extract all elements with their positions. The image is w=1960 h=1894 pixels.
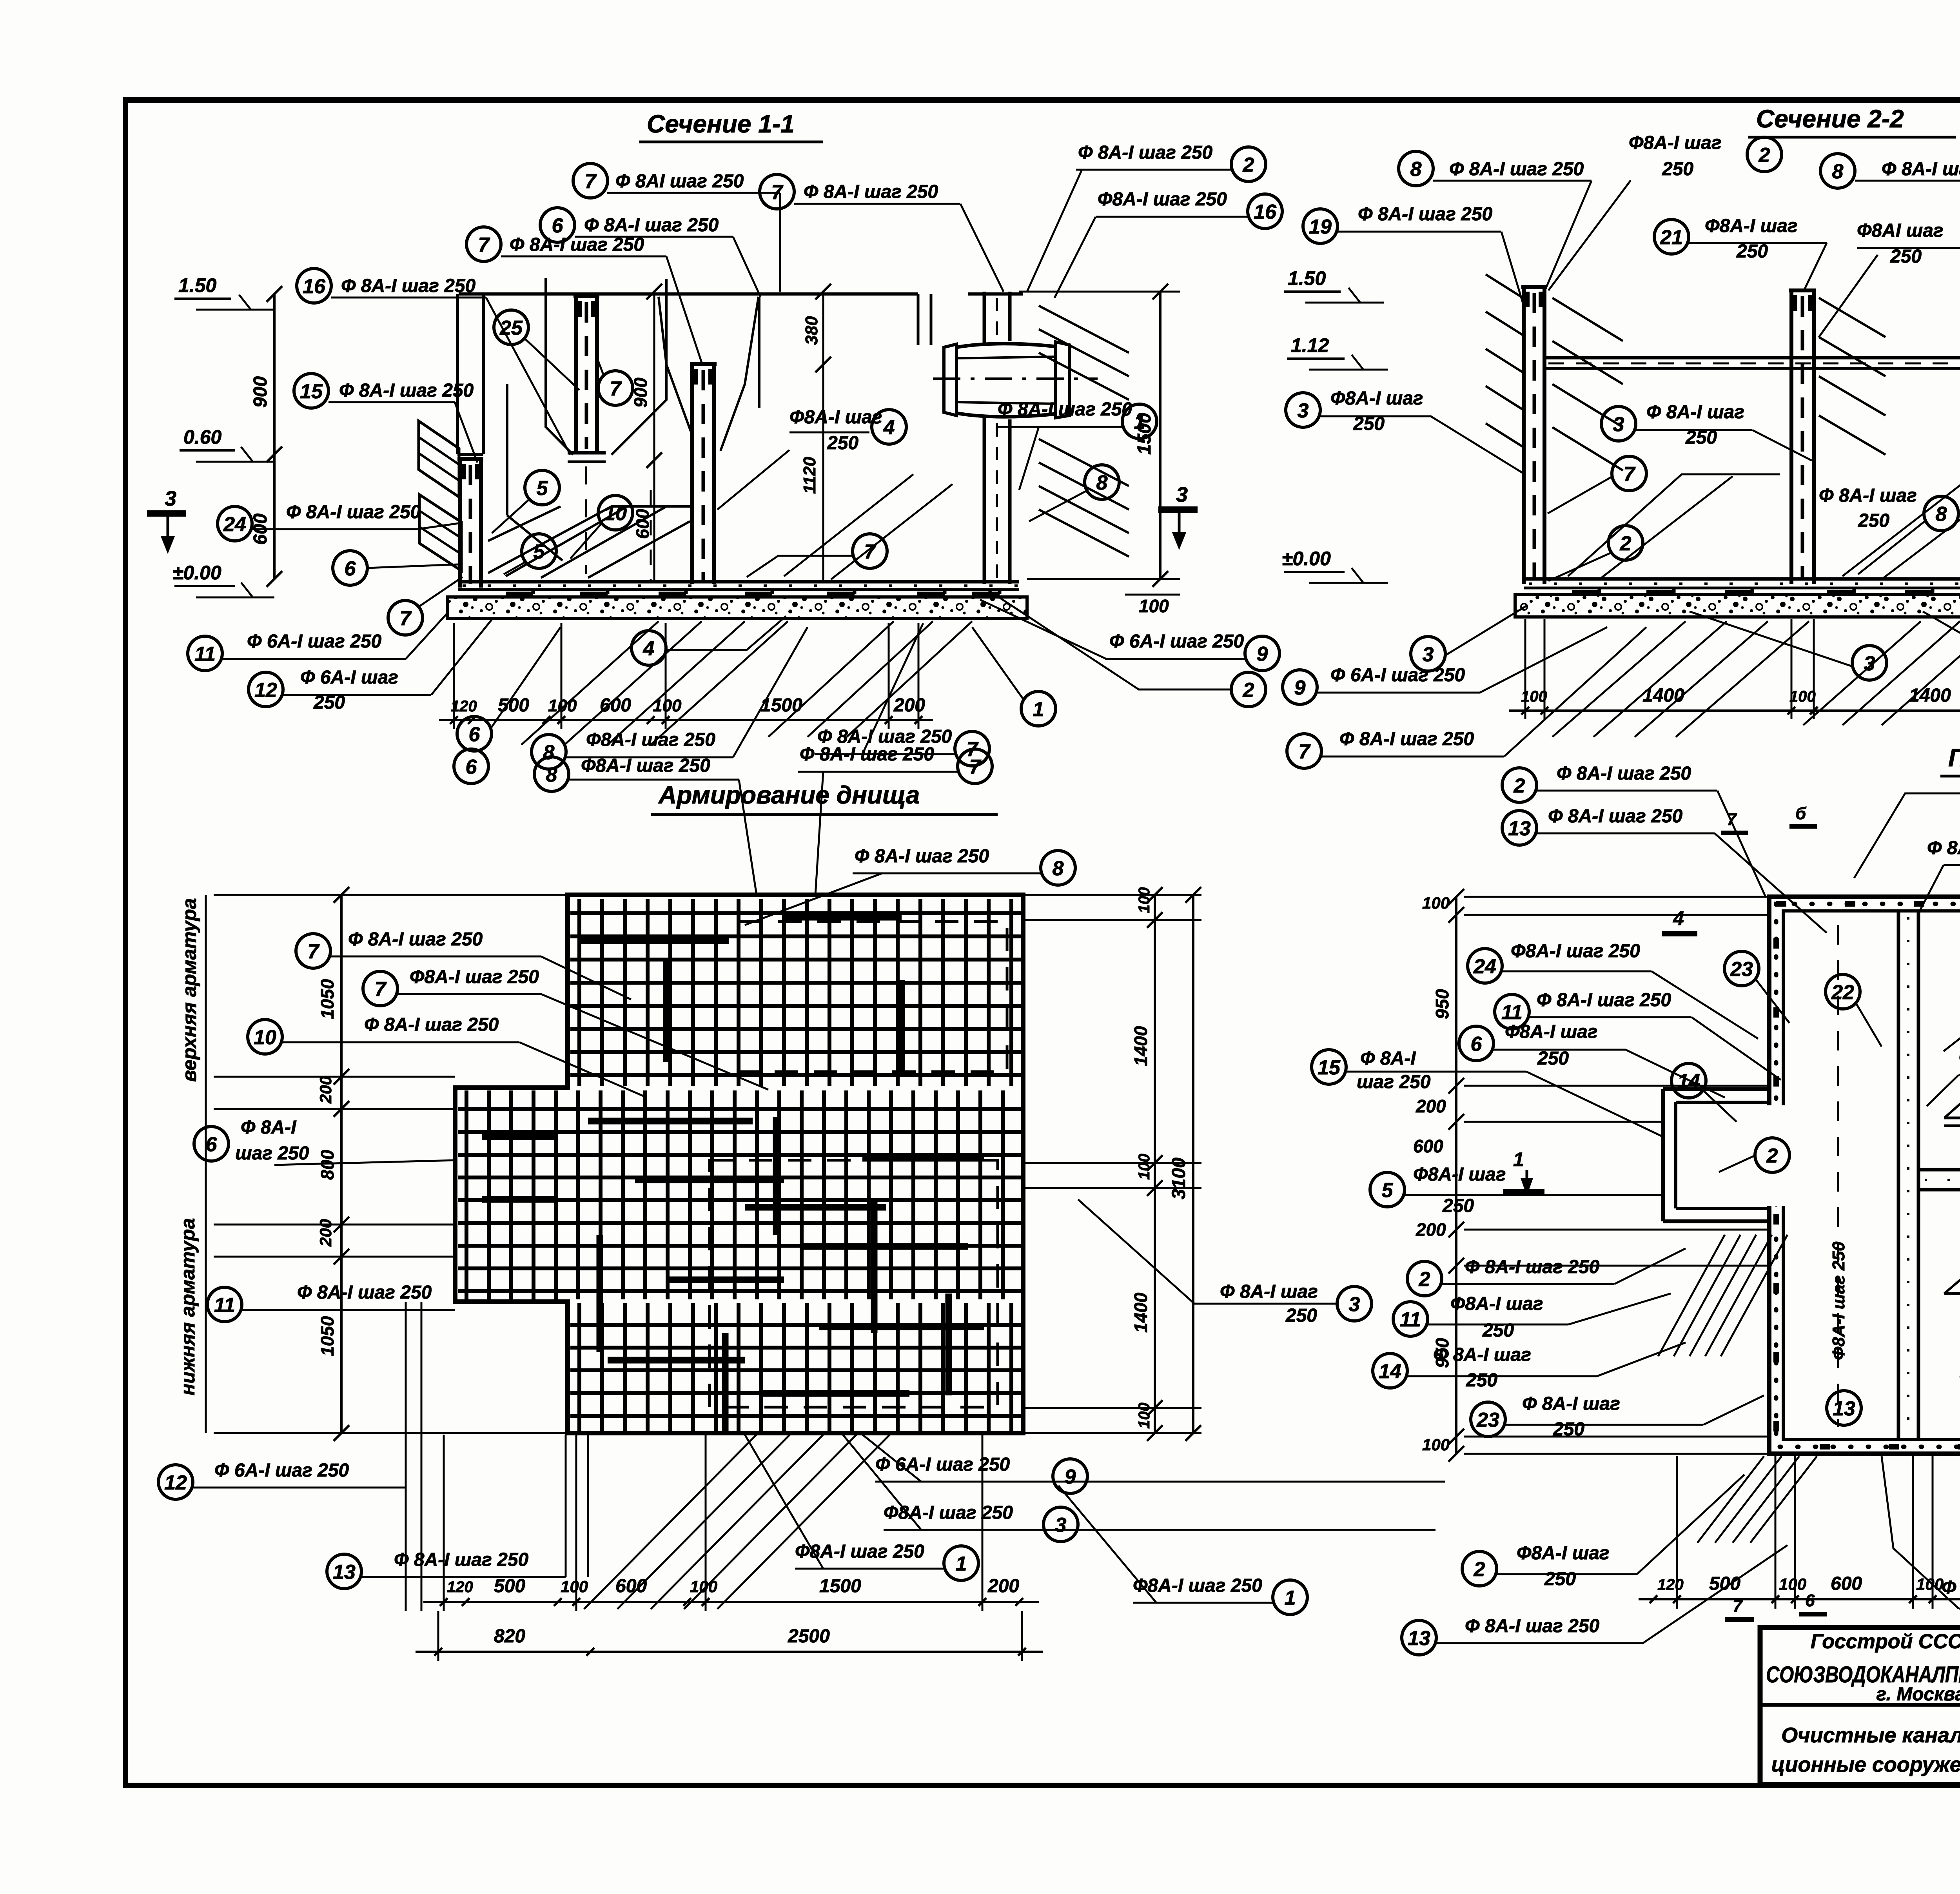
svg-text:3: 3	[1613, 413, 1624, 436]
svg-text:Ф 8А-I шаг 250: Ф 8А-I шаг 250	[348, 929, 483, 950]
svg-text:15: 15	[1318, 1056, 1341, 1079]
svg-text:Ф8А-I шаг 250: Ф8А-I шаг 250	[1829, 1241, 1848, 1360]
plan 3-3 bottom dim chain	[1639, 1598, 1960, 1600]
svg-text:1050: 1050	[317, 1316, 338, 1356]
svg-text:22: 22	[1831, 981, 1854, 1004]
vertical dim 1500 right	[1159, 292, 1161, 579]
svg-text:Ф 6А-I шаг 250: Ф 6А-I шаг 250	[1109, 631, 1244, 652]
svg-text:10: 10	[604, 502, 627, 525]
svg-text:Ф8А-I шаг: Ф8А-I шаг	[1705, 216, 1797, 236]
callout 13 plan	[327, 1435, 566, 1589]
callout 6 plan left	[194, 1117, 455, 1165]
svg-text:Ф 8А-I шаг 250: Ф 8А-I шаг 250	[1548, 806, 1683, 827]
svg-text:1500: 1500	[819, 1576, 861, 1596]
callout 9 s2	[1283, 627, 1607, 704]
wire top line section 1-1	[459, 292, 918, 296]
svg-text:8: 8	[1936, 503, 1947, 526]
callout 11 plan	[207, 1282, 455, 1322]
callout 7 corner	[388, 577, 463, 635]
callout 1 plan	[745, 1435, 978, 1580]
svg-text:7: 7	[771, 181, 784, 204]
svg-text:Армирование днища: Армирование днища	[658, 781, 920, 809]
callout 12	[249, 619, 492, 713]
svg-text:Ф 8А-I шаг 250: Ф 8А-I шаг 250	[1537, 990, 1671, 1010]
callout 19b s2	[1303, 204, 1525, 310]
svg-text:1400: 1400	[1131, 1026, 1151, 1066]
svg-text:100: 100	[1136, 887, 1153, 913]
svg-text:120: 120	[447, 1578, 473, 1596]
svg-text:Ф 8А-I шаг 250: Ф 8А-I шаг 250	[341, 276, 476, 296]
svg-text:7: 7	[969, 756, 982, 778]
horizontal dim chain bottom section 2-2	[1509, 709, 1960, 712]
svg-text:250: 250	[1482, 1320, 1514, 1341]
svg-text:500: 500	[494, 1576, 525, 1596]
svg-text:Ф8А-I шаг 250: Ф8А-I шаг 250	[1511, 941, 1640, 962]
svg-text:5: 5	[537, 477, 548, 500]
svg-text:±0.00: ±0.00	[172, 562, 221, 584]
callout 2 s2	[1548, 132, 1782, 290]
svg-text:200: 200	[1416, 1219, 1446, 1240]
svg-text:Ф 8А-I шаг: Ф 8А-I шаг	[1646, 402, 1744, 423]
callout 14 p33	[1671, 1063, 1737, 1122]
callout 15	[294, 374, 477, 463]
callout 1 right	[997, 399, 1157, 490]
svg-text:13: 13	[333, 1561, 356, 1584]
svg-text:10: 10	[254, 1026, 276, 1049]
svg-text:3: 3	[1864, 652, 1875, 675]
svg-text:1.50: 1.50	[178, 274, 217, 296]
callout 8 s2	[1399, 151, 1592, 287]
svg-text:600: 600	[1831, 1573, 1862, 1594]
svg-text:500: 500	[1709, 1573, 1740, 1594]
svg-text:2: 2	[1766, 1145, 1778, 1167]
callout 8 bottom	[532, 627, 808, 769]
svg-text:Ф8А-I шаг: Ф8А-I шаг	[1330, 388, 1423, 409]
right vertical dim chains plan	[1154, 895, 1156, 1433]
floor hatch diagonals	[488, 506, 686, 573]
svg-text:Ф8А-I шаг 250: Ф8А-I шаг 250	[581, 755, 710, 776]
svg-text:Ф 8А-I шаг 250: Ф 8А-I шаг 250	[1358, 204, 1493, 225]
horizontal dim chain bottom section 1-1	[439, 719, 933, 721]
svg-text:Ф 8А-I шаг 250: Ф 8А-I шаг 250	[855, 846, 989, 867]
callout 23 p33	[1724, 951, 1789, 1023]
svg-text:Ф8А-I шаг: Ф8А-I шаг	[1413, 1164, 1506, 1185]
callout 5 low	[504, 534, 556, 574]
svg-text:Ф 6А-I шаг 250: Ф 6А-I шаг 250	[875, 1454, 1010, 1475]
svg-text:2: 2	[1620, 532, 1632, 555]
svg-text:6: 6	[345, 557, 356, 580]
svg-text:13: 13	[1833, 1397, 1855, 1420]
svg-text:7: 7	[610, 377, 622, 400]
svg-text:250: 250	[1858, 510, 1889, 531]
svg-text:Ф 8А-I шаг: Ф 8А-I шаг	[1433, 1344, 1531, 1365]
svg-text:250: 250	[1285, 1305, 1317, 1326]
svg-text:Ф8А-I шаг 250: Ф8А-I шаг 250	[884, 1502, 1013, 1523]
svg-text:7: 7	[400, 607, 412, 630]
callout 8b s2	[1820, 154, 1960, 287]
wall left section 1-1	[458, 459, 462, 588]
svg-text:Ф 8А-I шаг 250: Ф 8А-I шаг 250	[1882, 159, 1960, 180]
svg-text:13: 13	[1408, 1627, 1430, 1650]
callout 8 right	[1029, 465, 1119, 521]
svg-text:100: 100	[1789, 688, 1816, 705]
svg-text:23: 23	[1730, 958, 1753, 981]
svg-text:250: 250	[1553, 1419, 1584, 1440]
callout 9 plan	[862, 1435, 1445, 1493]
svg-text:600: 600	[1413, 1136, 1443, 1156]
callout 7 bottom	[815, 623, 989, 766]
title block	[1760, 1627, 1960, 1785]
svg-text:820: 820	[494, 1626, 525, 1647]
callout 2d p33	[1407, 1248, 1686, 1296]
svg-text:250: 250	[1466, 1370, 1497, 1391]
callout 7 third	[466, 227, 702, 363]
callout 2c p33	[1719, 1138, 1789, 1172]
inlet channel	[1663, 1087, 1769, 1091]
svg-text:2: 2	[1514, 775, 1525, 797]
svg-text:Ф8А-I шаг: Ф8А-I шаг	[1629, 132, 1721, 153]
callout 5	[492, 470, 559, 533]
plan 3-3 outer wall	[1769, 897, 1960, 1454]
svg-text:7: 7	[1624, 463, 1636, 486]
svg-text:Ф 8А-I шаг: Ф 8А-I шаг	[1220, 1281, 1318, 1302]
svg-text:Ф8А-I шаг: Ф8А-I шаг	[1517, 1543, 1609, 1564]
wall middle section 2-2	[1789, 290, 1793, 584]
callout 21 s2	[1654, 216, 1827, 292]
callout 4 p33	[1918, 838, 1960, 913]
svg-text:8: 8	[1410, 158, 1422, 181]
svg-text:Ф8А-I шаг: Ф8А-I шаг	[1505, 1021, 1597, 1042]
svg-text:Ф 8А-I шаг 250: Ф 8А-I шаг 250	[364, 1014, 499, 1035]
svg-text:2: 2	[1474, 1558, 1485, 1581]
concrete base slab section 2-2	[1515, 595, 1960, 617]
callout 7 floor	[747, 534, 887, 577]
hatch left wall	[1486, 274, 1523, 298]
svg-text:8: 8	[543, 741, 555, 764]
callout 4 bottom	[632, 616, 786, 665]
callout 25	[494, 310, 579, 390]
dashed wall outline lower	[710, 1160, 998, 1407]
wall right section 1-1 with pipe	[983, 292, 986, 345]
callout 6 plan top	[454, 749, 488, 784]
svg-text:11: 11	[1400, 1308, 1421, 1331]
svg-text:13: 13	[1508, 817, 1531, 840]
callout 7 top2	[760, 174, 1004, 292]
floor slab top reinforcement band	[458, 580, 1019, 584]
callout 1 plan b	[1058, 1486, 1307, 1615]
leader bundle below slab s2	[1552, 621, 1686, 737]
rebar grid lower	[577, 1303, 581, 1431]
left vertical dim chain plan	[340, 895, 343, 1433]
svg-text:1.50: 1.50	[1288, 267, 1326, 289]
corridor dashed rebar pos 13	[1837, 925, 1839, 1427]
callout 12 plan	[158, 1460, 406, 1499]
svg-text:8: 8	[546, 764, 557, 786]
svg-text:0.60: 0.60	[183, 426, 222, 448]
svg-text:4: 4	[883, 416, 895, 439]
svg-text:1400: 1400	[1131, 1292, 1151, 1333]
svg-text:19: 19	[1309, 216, 1332, 238]
svg-text:Ф 8А-I шаг 250: Ф 8А-I шаг 250	[1465, 1616, 1600, 1636]
callout 3d s2	[1411, 606, 1527, 671]
rebar lines top chamber	[1944, 1117, 1960, 1119]
svg-text:12: 12	[164, 1471, 187, 1494]
rebar grid middle band	[465, 1090, 468, 1299]
svg-text:600: 600	[632, 509, 653, 539]
svg-text:Ф 6А-I шаг 250: Ф 6А-I шаг 250	[1330, 665, 1465, 686]
callout 6 bottom	[457, 627, 561, 751]
callout 7 baffle	[596, 355, 633, 405]
svg-text:120: 120	[1657, 1576, 1684, 1593]
svg-text:План по 3-3: План по 3-3	[1948, 744, 1960, 772]
svg-text:100: 100	[561, 1577, 588, 1596]
callout 15 p33	[1312, 1048, 1663, 1137]
vertical dim chain left 900/600	[273, 294, 276, 579]
svg-text:16: 16	[1254, 201, 1277, 223]
callout 6b p33	[1927, 1047, 1960, 1106]
callout 3b s2	[1601, 402, 1812, 461]
callout 4 mid wall	[717, 407, 906, 510]
svg-text:Ф8А-I шаг 250: Ф8А-I шаг 250	[1098, 189, 1227, 210]
svg-text:100: 100	[1422, 1435, 1450, 1454]
svg-text:100: 100	[1136, 1154, 1153, 1180]
svg-text:1: 1	[1285, 1587, 1296, 1609]
callout 8 plan top	[534, 755, 757, 895]
svg-text:Ф 6А-I шаг 250: Ф 6А-I шаг 250	[214, 1460, 349, 1481]
callout 16 right	[1054, 189, 1282, 298]
svg-text:7: 7	[864, 541, 877, 563]
svg-text:Ф 8А-I шаг 250: Ф 8А-I шаг 250	[286, 502, 421, 522]
svg-text:24: 24	[223, 513, 246, 536]
svg-text:Ф 6А-I шаг 250: Ф 6А-I шаг 250	[247, 631, 382, 652]
svg-text:±0.00: ±0.00	[1282, 548, 1331, 570]
svg-text:ционные сооружения: ционные сооружения	[1771, 1753, 1960, 1776]
svg-text:Ф8А-I шаг 250: Ф8А-I шаг 250	[586, 729, 715, 750]
leader bundle below slab s1	[521, 621, 659, 745]
svg-text:600: 600	[615, 1576, 647, 1596]
svg-text:Ф 8А-I шаг 250: Ф 8А-I шаг 250	[804, 181, 938, 202]
callout 7 s2	[1548, 456, 1646, 513]
callout 7 plan a	[296, 929, 631, 1000]
svg-text:250: 250	[1890, 246, 1922, 267]
svg-text:200: 200	[1416, 1096, 1446, 1116]
svg-text:8: 8	[1832, 160, 1844, 183]
svg-text:11: 11	[194, 643, 216, 666]
callout 6	[540, 208, 760, 297]
svg-text:1: 1	[1513, 1148, 1524, 1170]
svg-text:100: 100	[1136, 1402, 1153, 1429]
svg-text:Ф8А-I шаг 250: Ф8А-I шаг 250	[795, 1541, 924, 1562]
svg-text:7: 7	[478, 234, 490, 256]
hatch mid wall	[1819, 298, 1886, 337]
callout 3 s2	[1286, 388, 1525, 474]
svg-text:4: 4	[643, 637, 655, 660]
svg-text:3: 3	[1298, 399, 1309, 422]
svg-text:6: 6	[1805, 1591, 1815, 1610]
svg-text:23: 23	[1476, 1409, 1499, 1431]
callout 13 p33	[1502, 806, 1827, 933]
svg-text:7: 7	[585, 170, 597, 193]
pipe through wall	[944, 344, 956, 415]
callout 3f s2	[1923, 611, 1960, 677]
intermediate slab line	[1544, 356, 1960, 359]
svg-text:Очистные канализа-: Очистные канализа-	[1781, 1723, 1960, 1747]
wall rebar dots	[1776, 904, 1960, 1447]
callout 2 right2	[988, 590, 1266, 707]
callout 9 right	[980, 600, 1279, 671]
svg-text:5: 5	[534, 541, 545, 563]
svg-text:3: 3	[1176, 483, 1188, 506]
svg-text:3: 3	[165, 487, 176, 510]
callout 6 low	[333, 551, 458, 585]
svg-text:Ф 8А-I шаг 250: Ф 8А-I шаг 250	[297, 1282, 432, 1303]
callout 3e s2	[1690, 611, 1887, 680]
callout 3 plan b	[843, 1435, 1436, 1542]
lap splice bars	[588, 1118, 753, 1125]
svg-text:1: 1	[1033, 698, 1044, 721]
svg-text:Ф 8А-I: Ф 8А-I	[241, 1117, 297, 1138]
callout 6 p33	[1459, 1021, 1725, 1098]
svg-text:Ф 8А-I шаг: Ф 8А-I шаг	[1522, 1393, 1620, 1414]
callout 7 top	[573, 163, 780, 292]
svg-text:6: 6	[1471, 1033, 1483, 1056]
svg-text:100: 100	[1422, 894, 1450, 912]
vertical dim chain 380/1120	[822, 292, 824, 580]
svg-text:3: 3	[1055, 1514, 1067, 1537]
svg-text:Ф 8А-I шаг 250: Ф 8А-I шаг 250	[1339, 729, 1474, 749]
svg-text:Ф 8А-I шаг 250: Ф 8А-I шаг 250	[1557, 763, 1691, 784]
svg-text:г. Москва: г. Москва	[1876, 1684, 1960, 1705]
svg-text:380: 380	[802, 316, 821, 345]
callout 7 plan b	[363, 967, 768, 1090]
callout 2e p33	[1462, 1475, 1744, 1589]
svg-text:250: 250	[1537, 1048, 1569, 1069]
svg-text:11: 11	[1501, 1001, 1523, 1024]
svg-text:950: 950	[1432, 989, 1452, 1019]
svg-text:2: 2	[1759, 144, 1770, 167]
svg-text:6: 6	[552, 214, 564, 237]
baffle wall pos 25	[574, 296, 578, 453]
svg-text:7: 7	[308, 940, 320, 963]
bottom slab reinforcement plan outline	[455, 895, 1023, 1433]
callout 22 p33	[1826, 974, 1882, 1047]
svg-text:12: 12	[254, 679, 277, 702]
svg-text:Ф8АI шаг: Ф8АI шаг	[1857, 220, 1944, 241]
svg-text:21: 21	[1660, 226, 1683, 249]
svg-text:250: 250	[1736, 241, 1768, 262]
svg-text:1120: 1120	[800, 457, 819, 494]
hatch bundle left of plan	[1658, 1235, 1725, 1356]
callout 10	[570, 495, 633, 559]
concrete base slab section 1-1	[447, 597, 1027, 619]
svg-text:9: 9	[1294, 677, 1306, 699]
svg-text:250: 250	[827, 433, 858, 454]
callout 1 bottom	[972, 627, 1056, 726]
callout 11 p33	[1495, 990, 1781, 1080]
svg-text:11: 11	[214, 1294, 235, 1317]
svg-text:250: 250	[1442, 1196, 1474, 1216]
svg-text:14: 14	[1379, 1360, 1401, 1383]
callout 2b s2	[1548, 526, 1643, 581]
callout 13c p33	[1402, 1545, 1788, 1655]
callout 3 plan right	[1078, 1199, 1372, 1326]
svg-text:шаг 250: шаг 250	[1357, 1072, 1431, 1092]
svg-text:25: 25	[499, 317, 523, 339]
svg-text:Ф 8А-I шаг 250: Ф 8А-I шаг 250	[394, 1549, 529, 1570]
svg-text:100: 100	[1139, 596, 1169, 616]
wall middle section 1-1	[690, 364, 694, 584]
svg-text:Ф 8А-I шаг 250: Ф 8А-I шаг 250	[1927, 838, 1960, 858]
plan 3-3 left dim chain	[1455, 897, 1457, 1454]
interior horizontal wall	[1918, 1168, 1960, 1172]
callout 11	[188, 611, 449, 671]
callout 24	[218, 502, 459, 541]
svg-text:200: 200	[316, 1219, 335, 1247]
svg-text:6: 6	[466, 756, 477, 778]
svg-text:24: 24	[1473, 955, 1496, 978]
svg-text:100: 100	[1779, 1575, 1806, 1593]
svg-text:14: 14	[1677, 1070, 1700, 1093]
svg-text:8: 8	[1096, 472, 1108, 494]
callout 16	[297, 268, 570, 455]
callout 8c s2	[1819, 485, 1958, 574]
interior vertical wall	[1897, 911, 1900, 1440]
svg-text:Ф 6А-I шаг: Ф 6А-I шаг	[300, 667, 398, 688]
svg-text:б: б	[1795, 804, 1807, 823]
bottom dim chains plan	[423, 1601, 1039, 1603]
callout 8 plan	[745, 846, 1075, 925]
callout 2 topright	[1027, 142, 1266, 292]
callout 23b p33	[1471, 1393, 1764, 1440]
callout 20 s2	[1819, 220, 1960, 337]
svg-text:Ф 8А-I шаг: Ф 8А-I шаг	[1819, 485, 1917, 506]
svg-text:7: 7	[375, 978, 387, 1001]
callout 2 p33	[1502, 763, 1766, 898]
svg-text:2500: 2500	[788, 1626, 830, 1647]
svg-text:нижняя арматура: нижняя арматура	[177, 1218, 199, 1395]
svg-text:9: 9	[1065, 1466, 1076, 1488]
svg-text:1: 1	[1134, 411, 1145, 434]
formwork hatch left	[419, 421, 459, 497]
svg-text:2: 2	[1243, 679, 1254, 702]
svg-text:Ф 8А-I шаг 250: Ф 8А-I шаг 250	[1465, 1257, 1600, 1277]
svg-text:Ф 8А-I шаг 250: Ф 8А-I шаг 250	[800, 744, 935, 765]
callout 13b p33	[1827, 1391, 1861, 1425]
svg-text:5: 5	[1382, 1179, 1394, 1202]
svg-text:6: 6	[469, 723, 481, 746]
svg-text:4: 4	[1673, 907, 1684, 929]
svg-text:Сечение 2-2: Сечение 2-2	[1756, 105, 1904, 133]
callout 24 p33	[1468, 941, 1758, 1039]
svg-text:9: 9	[1257, 643, 1268, 666]
svg-text:6: 6	[206, 1133, 218, 1156]
svg-text:1.12: 1.12	[1291, 334, 1329, 356]
svg-text:900: 900	[250, 376, 271, 408]
svg-text:верхняя арматура: верхняя арматура	[178, 898, 200, 1082]
svg-text:250: 250	[1662, 159, 1693, 180]
svg-text:250: 250	[1544, 1569, 1576, 1589]
svg-text:Ф 8А-I: Ф 8А-I	[1360, 1048, 1416, 1069]
svg-text:Ф8А-I шаг 250: Ф8А-I шаг 250	[1133, 1575, 1262, 1596]
svg-text:1: 1	[956, 1553, 967, 1575]
svg-text:Ф 8А-I шаг 250: Ф 8А-I шаг 250	[339, 380, 474, 401]
svg-text:3: 3	[1349, 1293, 1360, 1316]
svg-text:16: 16	[303, 275, 326, 298]
svg-text:2: 2	[1419, 1268, 1430, 1291]
svg-text:3: 3	[1423, 643, 1434, 666]
rebar lines bottom chamber	[1944, 1292, 1960, 1295]
svg-text:Сечение 1-1: Сечение 1-1	[647, 110, 795, 138]
